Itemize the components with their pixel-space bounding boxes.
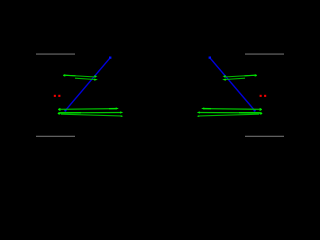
excited level (left)	[36, 53, 75, 55]
atom dots (left)	[54, 95, 56, 97]
recoil arrow U2 (right upper, left-pointing)	[222, 78, 245, 81]
recoil arrow U1 (left upper, double-headed)	[63, 74, 98, 77]
momentum arrow C (left lower, right-pointing)	[61, 114, 123, 117]
ground level (left)	[36, 135, 75, 137]
photon arrow (right)	[209, 57, 256, 112]
momentum arrow C (right lower, left-pointing)	[197, 114, 259, 117]
excited level (right)	[245, 53, 284, 55]
ground level (right)	[245, 135, 284, 137]
recoil arrow U1 (right upper, double-headed)	[223, 74, 258, 77]
recoil arrow U2 (left upper, right-pointing)	[75, 78, 98, 81]
momentum arrow B (right lower, double-headed)	[197, 111, 263, 114]
photon arrow (left)	[64, 57, 111, 112]
momentum arrow B (left lower, double-headed)	[58, 111, 124, 114]
atom dots (right)	[264, 95, 266, 97]
momentum arrow A (right lower, double-headed)	[201, 107, 262, 110]
momentum arrow A (left lower, double-headed)	[58, 107, 119, 110]
